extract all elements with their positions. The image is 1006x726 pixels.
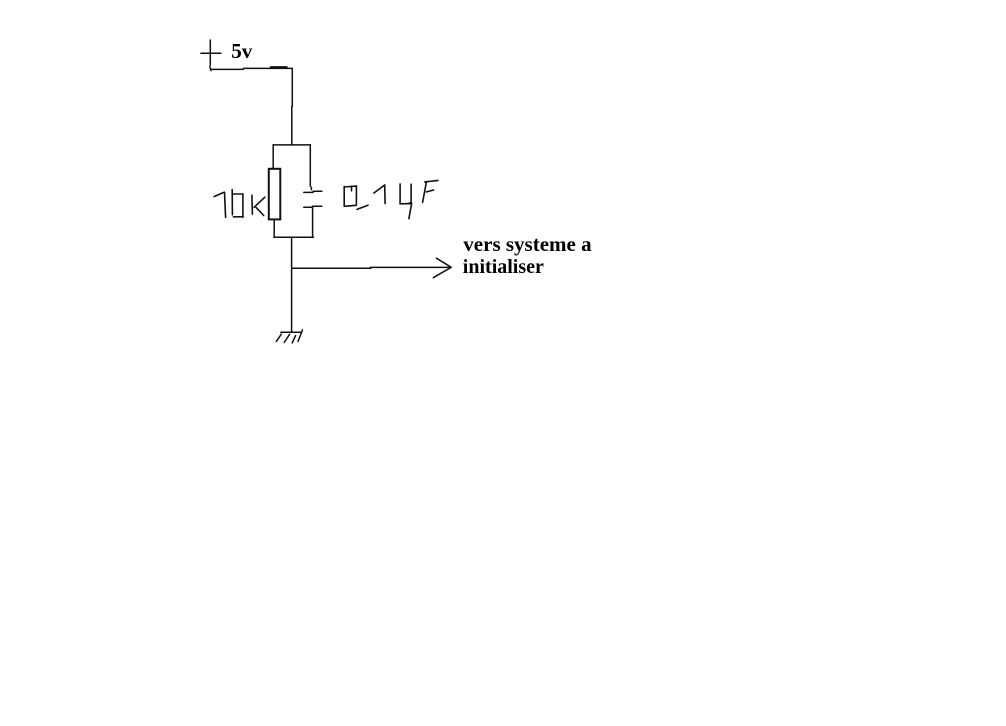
svg-text:vers systeme a: vers systeme a — [463, 232, 592, 256]
svg-text:initialiser: initialiser — [463, 256, 544, 278]
svg-text:5v: 5v — [231, 39, 253, 63]
